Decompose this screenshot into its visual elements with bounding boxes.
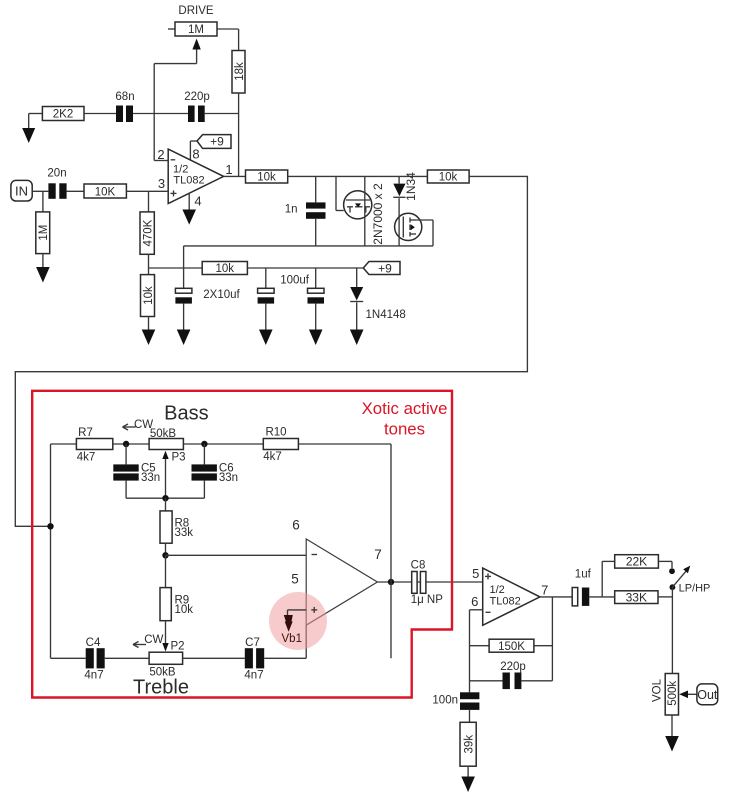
svg-text:CW: CW: [144, 634, 163, 646]
svg-text:1M: 1M: [188, 24, 204, 36]
svg-text:C8: C8: [411, 559, 426, 571]
svg-text:+9: +9: [378, 262, 392, 276]
svg-text:33k: 33k: [175, 527, 194, 539]
svg-text:470K: 470K: [142, 219, 154, 246]
svg-text:7: 7: [541, 582, 548, 597]
svg-text:C7: C7: [245, 637, 260, 649]
svg-text:DRIVE: DRIVE: [178, 5, 213, 17]
svg-text:4k7: 4k7: [263, 451, 282, 463]
svg-text:5: 5: [291, 572, 299, 587]
svg-text:Vb1: Vb1: [282, 633, 302, 645]
svg-text:TL082: TL082: [173, 175, 204, 187]
svg-text:1N34: 1N34: [404, 172, 418, 201]
svg-text:500k: 500k: [667, 681, 679, 706]
svg-text:220p: 220p: [184, 91, 210, 103]
svg-text:10k: 10k: [257, 172, 276, 184]
svg-text:TL082: TL082: [490, 595, 521, 607]
svg-text:Bass: Bass: [164, 403, 208, 425]
svg-text:tones: tones: [384, 420, 425, 439]
svg-text:4n7: 4n7: [244, 670, 263, 682]
svg-text:1N4148: 1N4148: [366, 309, 406, 321]
svg-text:+9: +9: [210, 135, 224, 149]
svg-text:1M: 1M: [38, 225, 50, 241]
svg-text:2K2: 2K2: [53, 109, 73, 121]
svg-text:220p: 220p: [500, 661, 526, 673]
svg-text:33K: 33K: [626, 590, 647, 604]
svg-text:3: 3: [158, 176, 165, 191]
svg-text:10k: 10k: [175, 604, 194, 616]
svg-text:10k: 10k: [439, 172, 458, 184]
svg-text:5: 5: [472, 566, 479, 581]
svg-text:R10: R10: [265, 427, 286, 439]
svg-text:33n: 33n: [219, 472, 238, 484]
svg-text:VOL: VOL: [652, 678, 664, 702]
svg-text:4n7: 4n7: [84, 670, 103, 682]
svg-text:6: 6: [471, 594, 478, 609]
svg-text:18k: 18k: [234, 62, 246, 81]
svg-text:22K: 22K: [626, 555, 647, 569]
svg-text:4: 4: [194, 194, 201, 209]
svg-text:LP/HP: LP/HP: [679, 583, 711, 595]
svg-text:1/2: 1/2: [490, 584, 505, 596]
svg-text:10k: 10k: [143, 286, 155, 305]
svg-text:Xotic active: Xotic active: [362, 399, 448, 418]
svg-text:P3: P3: [172, 452, 186, 464]
svg-text:150K: 150K: [498, 641, 525, 653]
svg-text:33n: 33n: [141, 472, 160, 484]
svg-text:C4: C4: [86, 637, 101, 649]
svg-text:100uf: 100uf: [280, 275, 310, 287]
svg-text:1n: 1n: [285, 204, 298, 216]
svg-text:P2: P2: [171, 641, 185, 653]
svg-text:1uf: 1uf: [575, 569, 592, 581]
svg-text:1: 1: [225, 162, 232, 177]
svg-text:68n: 68n: [115, 91, 134, 103]
svg-text:1μ NP: 1μ NP: [411, 594, 444, 606]
svg-text:R7: R7: [78, 427, 93, 439]
svg-text:Out: Out: [697, 688, 718, 702]
svg-text:39k: 39k: [463, 735, 475, 754]
svg-text:20n: 20n: [47, 168, 66, 180]
svg-text:2: 2: [157, 147, 164, 162]
svg-text:Treble: Treble: [133, 677, 189, 699]
svg-text:8: 8: [192, 146, 199, 161]
svg-text:10k: 10k: [216, 263, 235, 275]
svg-text:2N7000 x 2: 2N7000 x 2: [371, 183, 385, 245]
svg-text:7: 7: [374, 547, 382, 562]
svg-text:2X10uf: 2X10uf: [203, 289, 240, 301]
svg-text:IN: IN: [15, 183, 28, 198]
svg-text:4k7: 4k7: [77, 452, 96, 464]
svg-text:10K: 10K: [95, 186, 116, 198]
svg-text:6: 6: [292, 518, 300, 533]
svg-text:100n: 100n: [432, 694, 458, 706]
